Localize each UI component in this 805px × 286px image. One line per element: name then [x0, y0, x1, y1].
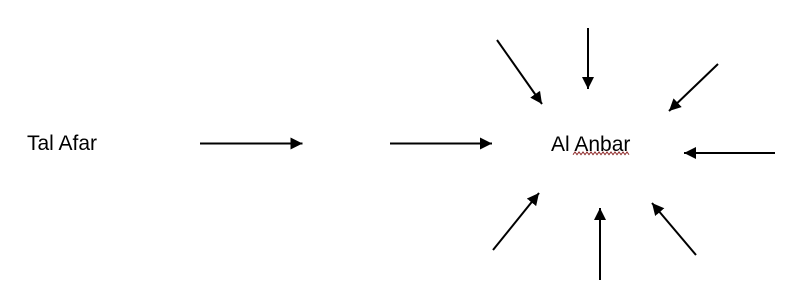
spellcheck squiggle under Anbar — [573, 152, 629, 155]
arrow from upper-left toward Al Anbar — [497, 40, 542, 104]
arrow from right toward Al Anbar — [684, 152, 775, 154]
arrow middle toward Al Anbar — [390, 143, 492, 145]
svg-text:Tal Afar: Tal Afar — [27, 132, 97, 155]
arrow from lower-right toward Al Anbar — [652, 203, 696, 255]
arrow from lower-left toward Al Anbar — [493, 193, 539, 250]
arrow from top toward Al Anbar — [587, 28, 589, 89]
arrow from Tal Afar to center — [200, 143, 303, 145]
arrow from upper-right toward Al Anbar — [669, 64, 718, 111]
arrow from bottom toward Al Anbar — [599, 208, 601, 280]
